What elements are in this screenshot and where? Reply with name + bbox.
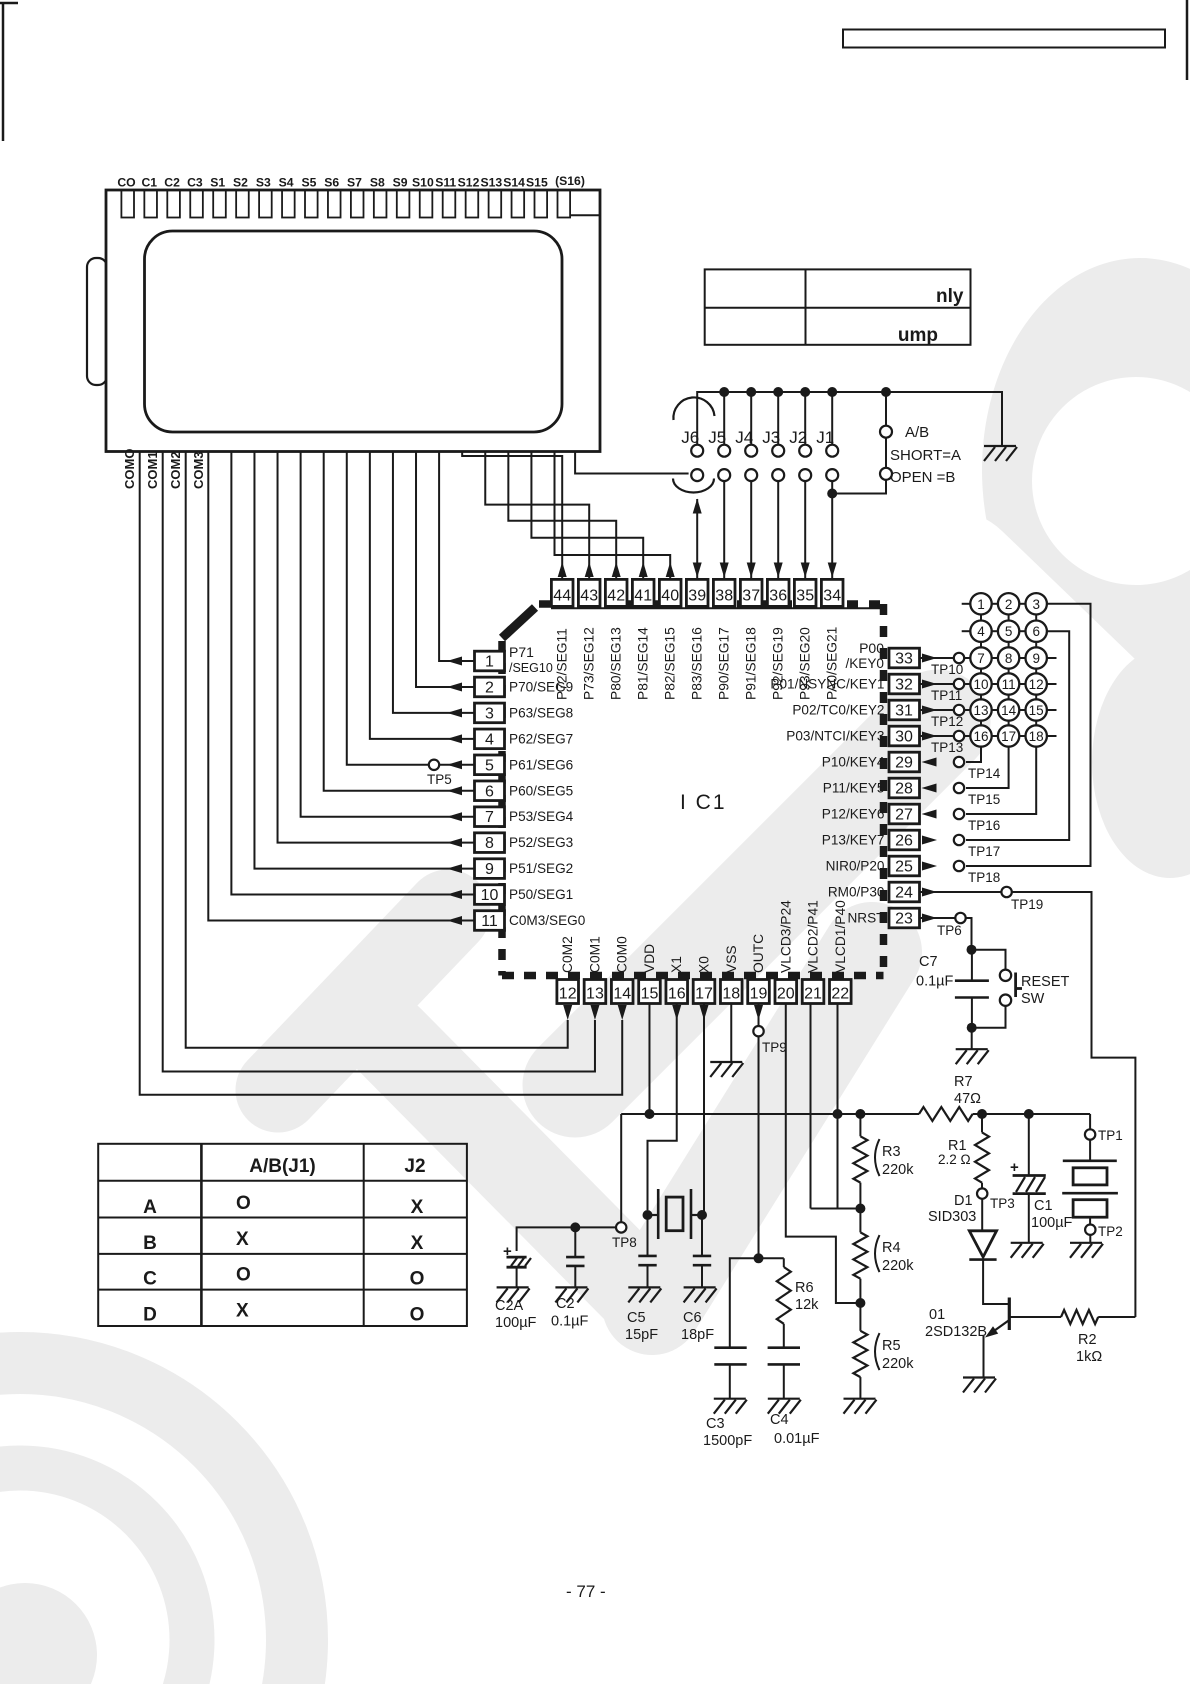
- svg-text:TP19: TP19: [1011, 897, 1043, 912]
- wire segment S-line to pin 10: [231, 452, 474, 895]
- wire pin 17 X0 to crystal: [703, 1004, 705, 1216]
- svg-text:(S16): (S16): [555, 174, 585, 188]
- arrows on right pins: [922, 654, 937, 663]
- svg-text:NIR0/P20: NIR0/P20: [826, 859, 885, 874]
- J6 crossing arc upper: [673, 397, 714, 420]
- jumper wires into pins 39-34 with arrows: [696, 499, 698, 578]
- resistor R7: [919, 1107, 973, 1121]
- svg-text:12: 12: [1029, 677, 1044, 692]
- svg-text:22: 22: [831, 986, 849, 1003]
- svg-text:S1: S1: [210, 176, 225, 190]
- A/B jumper pads: [880, 426, 892, 438]
- svg-text:C5: C5: [627, 1310, 646, 1326]
- wire OUTC to C3: [730, 1258, 759, 1347]
- arrows into LCD wires (left pins 1-11): [447, 657, 462, 666]
- IC1 top edge line: [551, 607, 884, 609]
- keypad matrix wires: [992, 603, 997, 605]
- LCD comb slot (S16): [558, 190, 571, 218]
- wire pin 20 VLCD3: [786, 1004, 861, 1304]
- svg-text:15: 15: [1029, 703, 1044, 718]
- svg-text:28: 28: [895, 781, 913, 798]
- svg-text:R5: R5: [882, 1338, 901, 1354]
- svg-text:41: 41: [634, 588, 652, 605]
- svg-text:C7: C7: [919, 954, 938, 970]
- svg-text:31: 31: [895, 703, 913, 720]
- svg-text:R3: R3: [882, 1144, 901, 1160]
- svg-text:P63/SEG8: P63/SEG8: [509, 705, 573, 720]
- junction dot NRST top: [967, 945, 977, 955]
- LCD glass inner outline: [145, 231, 563, 432]
- wire S16 tooth to right border: [570, 214, 600, 216]
- svg-text:40: 40: [661, 588, 679, 605]
- A/B jumper wire lower: [832, 479, 886, 494]
- wire S12 to pin 43: [485, 452, 589, 580]
- wire OUTC to R6: [759, 1257, 784, 1259]
- svg-text:J2: J2: [404, 1156, 425, 1177]
- svg-text:SHORT=A: SHORT=A: [890, 447, 961, 464]
- ground C6: [684, 1286, 716, 1288]
- junction dot R4 R5: [855, 1298, 865, 1308]
- wire segment S-line to pin 11: [208, 452, 474, 921]
- svg-text:C0M3/SEG0: C0M3/SEG0: [509, 913, 586, 928]
- power bus wire right: [973, 1113, 1091, 1115]
- wire TP8 to C2 C2A: [517, 1227, 616, 1251]
- IC1 chamfer mark: [502, 608, 535, 639]
- wire S13 to pin 42: [508, 452, 616, 580]
- svg-text:P82/SEG15: P82/SEG15: [663, 627, 678, 700]
- svg-text:33: 33: [895, 651, 913, 668]
- svg-text:C3: C3: [706, 1416, 725, 1432]
- configuration table grid: [98, 1144, 467, 1326]
- svg-text:P02/TC0/KEY2: P02/TC0/KEY2: [792, 703, 884, 718]
- svg-text:23: 23: [895, 911, 913, 928]
- svg-text:4: 4: [485, 731, 494, 748]
- svg-text:TP15: TP15: [968, 792, 1000, 807]
- svg-text:VLCD2/P41: VLCD2/P41: [806, 900, 821, 973]
- svg-text:P50/SEG1: P50/SEG1: [509, 887, 573, 902]
- svg-text:R6: R6: [795, 1280, 814, 1296]
- wire D1 to transistor base: [983, 1260, 1008, 1304]
- svg-text:15: 15: [641, 986, 659, 1003]
- svg-text:X: X: [411, 1233, 424, 1254]
- wire segment S-line to pin 8: [278, 452, 475, 843]
- svg-text:24: 24: [895, 885, 913, 902]
- svg-text:5: 5: [1005, 624, 1013, 639]
- capacitor C2A body: [507, 1256, 527, 1259]
- svg-text:OPEN =B: OPEN =B: [890, 469, 955, 486]
- test point TP6: [955, 913, 965, 923]
- junction dot on J1 line: [827, 489, 837, 499]
- svg-text:P12/KEY6: P12/KEY6: [822, 807, 885, 822]
- svg-text:I C1: I C1: [680, 791, 727, 814]
- svg-text:J3: J3: [762, 428, 780, 447]
- svg-text:12: 12: [559, 986, 577, 1003]
- jumper upper pads J6-J1: [691, 445, 703, 457]
- wire segment S-line to pin 4: [370, 452, 475, 739]
- svg-text:S6: S6: [324, 176, 339, 190]
- svg-text:5: 5: [485, 757, 494, 774]
- svg-text:C4: C4: [770, 1412, 789, 1428]
- wire segment S-line to pin 5: [347, 452, 475, 765]
- svg-text:10: 10: [973, 677, 988, 692]
- label R4: [875, 1235, 880, 1272]
- svg-text:S11: S11: [435, 176, 456, 190]
- svg-text:P73/SEG12: P73/SEG12: [582, 627, 597, 700]
- svg-text:VSS: VSS: [724, 945, 739, 973]
- capacitor C7: [971, 950, 973, 981]
- wire bus to C1: [1028, 1114, 1030, 1176]
- svg-text:39: 39: [688, 588, 706, 605]
- svg-text:35: 35: [796, 588, 814, 605]
- IC1 left pins 1-11 boxes: [475, 651, 505, 671]
- svg-text:32: 32: [895, 677, 913, 694]
- svg-text:P53/SEG4: P53/SEG4: [509, 809, 574, 824]
- svg-text:100µF: 100µF: [1031, 1215, 1073, 1231]
- svg-text:S9: S9: [393, 176, 408, 190]
- wire pin 33 to keypad row 3: [920, 657, 970, 659]
- svg-text:CO: CO: [117, 176, 135, 190]
- svg-text:P11/KEY5: P11/KEY5: [823, 781, 885, 796]
- svg-text:0.01µF: 0.01µF: [774, 1431, 820, 1447]
- wire pin 22 VLCD1 to bus: [837, 1004, 839, 1115]
- svg-text:NRST: NRST: [847, 911, 884, 926]
- svg-text:VDD: VDD: [642, 944, 657, 973]
- svg-text:21: 21: [804, 986, 822, 1003]
- svg-text:19: 19: [750, 986, 768, 1003]
- keypad row2 wire to TP17 column: [966, 631, 1069, 840]
- svg-text:C1: C1: [142, 176, 158, 190]
- LCD module outline: [106, 190, 600, 452]
- svg-text:S8: S8: [370, 176, 385, 190]
- wire bus to TP8: [620, 1114, 622, 1222]
- svg-text:P62/SEG7: P62/SEG7: [509, 731, 573, 746]
- svg-text:6: 6: [485, 783, 494, 800]
- svg-text:2: 2: [485, 679, 494, 696]
- capacitor C6: [701, 1215, 703, 1256]
- svg-text:COM1: COM1: [145, 451, 160, 489]
- svg-text:OUTC: OUTC: [751, 934, 766, 973]
- reset switch actuator: [1014, 973, 1017, 998]
- junction dot crystal left: [643, 1210, 653, 1220]
- svg-text:TP8: TP8: [612, 1235, 637, 1250]
- wire pin 21 VLCD2: [810, 1004, 812, 1209]
- svg-text:8: 8: [1005, 651, 1013, 666]
- wire bus corner to TP1: [1089, 1114, 1091, 1129]
- svg-text:SW: SW: [1021, 991, 1045, 1007]
- svg-text:26: 26: [895, 833, 913, 850]
- svg-text:X0: X0: [697, 956, 712, 973]
- svg-text:O: O: [236, 1193, 251, 1214]
- wire segment S-line to pin 7: [301, 452, 475, 817]
- svg-text:C3: C3: [187, 176, 203, 190]
- ground below reset switch: [956, 1048, 988, 1050]
- wire pin 15 VDD to bus: [648, 1004, 650, 1115]
- svg-text:11: 11: [481, 913, 498, 930]
- wire segment S-line to pin 3: [393, 452, 475, 713]
- crystal X'tal: [648, 1214, 659, 1216]
- svg-text:220k: 220k: [882, 1162, 914, 1178]
- keypad switches 1-18: [970, 593, 991, 614]
- svg-text:C2A: C2A: [495, 1298, 524, 1314]
- svg-text:2SD132B: 2SD132B: [925, 1324, 987, 1340]
- svg-text:P13/KEY7: P13/KEY7: [822, 833, 885, 848]
- wire C2A to ground: [516, 1267, 518, 1287]
- wire S14 to pin 41: [531, 452, 643, 580]
- svg-text:ump: ump: [898, 325, 938, 346]
- svg-text:TP6: TP6: [937, 923, 962, 938]
- svg-text:SID303: SID303: [928, 1209, 976, 1225]
- svg-text:2.2 Ω: 2.2 Ω: [938, 1152, 971, 1167]
- svg-text:O: O: [236, 1265, 251, 1286]
- svg-text:O: O: [410, 1269, 425, 1290]
- svg-text:X: X: [411, 1197, 424, 1218]
- reset switch contacts: [1000, 970, 1011, 981]
- svg-text:17: 17: [1001, 729, 1016, 744]
- svg-text:TP10: TP10: [931, 662, 963, 677]
- wire pin 18 VSS to ground: [730, 1004, 732, 1063]
- svg-text:A/B: A/B: [905, 424, 929, 441]
- svg-text:2: 2: [1005, 597, 1013, 612]
- svg-text:44: 44: [553, 588, 571, 605]
- svg-text:VLCD3/P24: VLCD3/P24: [778, 900, 793, 973]
- svg-text:C2: C2: [164, 176, 180, 190]
- svg-text:C6: C6: [683, 1310, 702, 1326]
- svg-text:TP17: TP17: [968, 844, 1000, 859]
- wire segment S-line to pin 9: [254, 452, 474, 869]
- wire segment S-line to pin 6: [324, 452, 475, 791]
- svg-text:S15: S15: [526, 176, 548, 190]
- svg-text:25: 25: [895, 859, 913, 876]
- watermark background (decorative): [982, 258, 1190, 682]
- wire TP1 to battery: [1089, 1140, 1091, 1161]
- junction dot R3 R4: [855, 1204, 865, 1214]
- svg-text:J1: J1: [816, 428, 834, 447]
- ground C2A: [497, 1286, 529, 1288]
- svg-text:220k: 220k: [882, 1356, 914, 1372]
- wire TP2 to ground: [1089, 1235, 1091, 1243]
- svg-text:C1: C1: [1034, 1198, 1053, 1214]
- svg-text:17: 17: [695, 986, 713, 1003]
- svg-text:A: A: [143, 1197, 157, 1218]
- wire NRST to ground: [971, 1028, 973, 1050]
- test point TP5: [429, 760, 439, 770]
- jumper table: [705, 269, 971, 344]
- power bus wire: [621, 1113, 919, 1115]
- wire pin 16 X1 to crystal: [648, 1004, 677, 1211]
- svg-text:6: 6: [1032, 624, 1040, 639]
- svg-text:COMO: COMO: [122, 449, 137, 489]
- test point TP1: [1085, 1129, 1095, 1139]
- svg-text:TP12: TP12: [931, 714, 963, 729]
- J6 crossing arc lower: [673, 479, 714, 493]
- junction dot bus VLCD1: [833, 1109, 843, 1119]
- svg-text:TP18: TP18: [968, 870, 1000, 885]
- svg-text:13: 13: [586, 986, 604, 1003]
- svg-text:X1: X1: [669, 956, 684, 973]
- svg-text:R7: R7: [954, 1074, 973, 1090]
- svg-text:/KEY0: /KEY0: [845, 656, 884, 671]
- svg-text:20: 20: [777, 986, 795, 1003]
- diode D1: [969, 1231, 996, 1257]
- svg-text:P52/SEG3: P52/SEG3: [509, 835, 573, 850]
- svg-text:01: 01: [929, 1307, 945, 1323]
- ground R5: [844, 1398, 876, 1400]
- svg-text:3: 3: [1032, 597, 1040, 612]
- svg-text:P81/SEG14: P81/SEG14: [636, 627, 651, 700]
- svg-text:J2: J2: [789, 428, 807, 447]
- svg-text:18pF: 18pF: [681, 1327, 714, 1343]
- svg-text:16: 16: [973, 729, 988, 744]
- svg-text:S10: S10: [412, 176, 434, 190]
- label R3: [875, 1139, 880, 1176]
- test point TP2: [1085, 1225, 1095, 1235]
- svg-text:1: 1: [977, 597, 985, 612]
- wire pin 31 to keypad row 5: [920, 709, 970, 711]
- wire S11 to pin 44: [462, 452, 562, 580]
- svg-text:C0M1: C0M1: [587, 936, 602, 973]
- resistor R6: [783, 1258, 785, 1267]
- svg-text:P71: P71: [509, 644, 534, 660]
- svg-text:TP9: TP9: [762, 1040, 787, 1055]
- svg-text:C0M0: C0M0: [615, 936, 630, 973]
- resistor R4: [859, 1209, 861, 1233]
- svg-text:4: 4: [977, 624, 985, 639]
- wire pin 23 NRST to reset circuit: [920, 918, 972, 950]
- svg-text:P03/NTCI/KEY3: P03/NTCI/KEY3: [786, 729, 884, 744]
- svg-text:P80/SEG13: P80/SEG13: [609, 627, 624, 700]
- ground C4: [768, 1398, 800, 1400]
- svg-text:38: 38: [715, 588, 733, 605]
- svg-text:P60/SEG5: P60/SEG5: [509, 783, 573, 798]
- wire pin 24 through TP19 to R2: [920, 892, 1136, 1317]
- VDD bus junction dot: [644, 1109, 654, 1119]
- jumper bus junction dots: [719, 387, 729, 397]
- svg-text:TP11: TP11: [931, 688, 962, 703]
- capacitor C1 body: [1013, 1174, 1046, 1177]
- jumper lower pads J6-J1: [691, 469, 703, 481]
- svg-text:TP5: TP5: [427, 772, 452, 787]
- svg-text:P70/SEG9: P70/SEG9: [509, 679, 573, 694]
- svg-text:7: 7: [485, 809, 494, 826]
- svg-text:D: D: [143, 1305, 157, 1326]
- battery B1: [1063, 1160, 1117, 1163]
- svg-text:R2: R2: [1078, 1332, 1097, 1348]
- svg-text:1500pF: 1500pF: [703, 1433, 752, 1449]
- wire COM1 to pin 13: [163, 452, 595, 1072]
- ground transistor emitter: [963, 1376, 995, 1378]
- svg-text:VLCD1/P40: VLCD1/P40: [833, 900, 848, 973]
- svg-text:C: C: [143, 1269, 157, 1290]
- wire COM0 to pin 14: [140, 452, 623, 1095]
- junction dot C2: [570, 1222, 580, 1232]
- ground C2: [555, 1286, 587, 1288]
- svg-text:S2: S2: [233, 176, 248, 190]
- resistor R2: [1061, 1310, 1098, 1324]
- svg-text:TP14: TP14: [968, 766, 1001, 781]
- svg-text:O: O: [410, 1305, 425, 1326]
- svg-text:TP16: TP16: [968, 818, 1000, 833]
- svg-text:C2: C2: [556, 1296, 575, 1312]
- ground VSS: [710, 1061, 742, 1063]
- svg-text:14: 14: [1001, 703, 1017, 718]
- svg-text:P10/KEY4: P10/KEY4: [822, 755, 885, 770]
- svg-text:42: 42: [607, 588, 625, 605]
- arrows up on pins 44-40: [558, 562, 567, 577]
- svg-text:D1: D1: [954, 1193, 973, 1209]
- svg-text:15pF: 15pF: [625, 1327, 658, 1343]
- svg-text:TP13: TP13: [931, 740, 963, 755]
- svg-text:18: 18: [1029, 729, 1044, 744]
- svg-text:X: X: [236, 1301, 249, 1322]
- svg-text:J4: J4: [735, 428, 753, 447]
- svg-text:100µF: 100µF: [495, 1315, 537, 1331]
- wire emitter to ground: [983, 1336, 985, 1378]
- svg-text:RM0/P30: RM0/P30: [828, 885, 885, 900]
- svg-text:COM2: COM2: [168, 451, 183, 489]
- svg-text:R4: R4: [882, 1240, 901, 1256]
- svg-text:RESET: RESET: [1021, 974, 1069, 990]
- wire COM2 to pin 12: [186, 452, 568, 1048]
- svg-text:J5: J5: [708, 428, 726, 447]
- test points TP10-TP18: [954, 653, 964, 663]
- svg-text:J6: J6: [681, 428, 699, 447]
- test point TP8: [616, 1222, 626, 1232]
- svg-text:TP1: TP1: [1098, 1128, 1123, 1143]
- arrows below pins 12,13,14,16,17,19: [563, 1005, 572, 1020]
- junction dot OUTC: [754, 1253, 764, 1263]
- capacitor C4: [768, 1346, 800, 1349]
- svg-text:220k: 220k: [882, 1258, 914, 1274]
- svg-text:S13: S13: [480, 176, 502, 190]
- wire C1 to ground: [1028, 1194, 1030, 1243]
- svg-text:12k: 12k: [795, 1297, 819, 1313]
- wire pin 32 to keypad row 4: [920, 683, 970, 685]
- resistor R3: [859, 1114, 861, 1136]
- svg-text:nly: nly: [936, 286, 964, 307]
- svg-text:47Ω: 47Ω: [954, 1091, 981, 1107]
- svg-text:C0M2: C0M2: [560, 936, 575, 973]
- LCD connector tab (left bump): [87, 258, 107, 385]
- IC1 right pins 33-23 boxes: [889, 648, 920, 668]
- svg-text:- 77 -: - 77 -: [566, 1582, 606, 1601]
- jumper bus wire: [697, 392, 1002, 446]
- svg-text:18: 18: [722, 986, 740, 1003]
- svg-text:TP2: TP2: [1098, 1224, 1123, 1239]
- reset switch wiring: [972, 950, 1006, 970]
- svg-text:S7: S7: [347, 176, 362, 190]
- wire S16 to jumper J6: [575, 452, 689, 474]
- wire segment S-line to pin 2: [416, 452, 474, 687]
- svg-text:P00: P00: [859, 640, 884, 656]
- svg-text:8: 8: [485, 835, 494, 852]
- svg-text:P51/SEG2: P51/SEG2: [509, 861, 573, 876]
- test point TP9: [753, 1026, 763, 1036]
- svg-text:TP3: TP3: [990, 1196, 1015, 1211]
- junction dot C1 top: [1024, 1109, 1034, 1119]
- svg-text:9: 9: [1032, 651, 1040, 666]
- junction dot NRST bottom: [967, 1023, 977, 1033]
- wire S15 to pin 40: [555, 452, 671, 580]
- svg-text:37: 37: [742, 588, 760, 605]
- svg-text:7: 7: [977, 651, 985, 666]
- svg-text:30: 30: [895, 729, 913, 746]
- page frame edge top-right: [1186, 0, 1189, 80]
- svg-text:34: 34: [823, 588, 841, 605]
- svg-text:1kΩ: 1kΩ: [1076, 1349, 1102, 1365]
- label R5: [875, 1333, 880, 1370]
- svg-text:27: 27: [895, 807, 913, 824]
- wire pin 30 to keypad row 6: [920, 735, 970, 737]
